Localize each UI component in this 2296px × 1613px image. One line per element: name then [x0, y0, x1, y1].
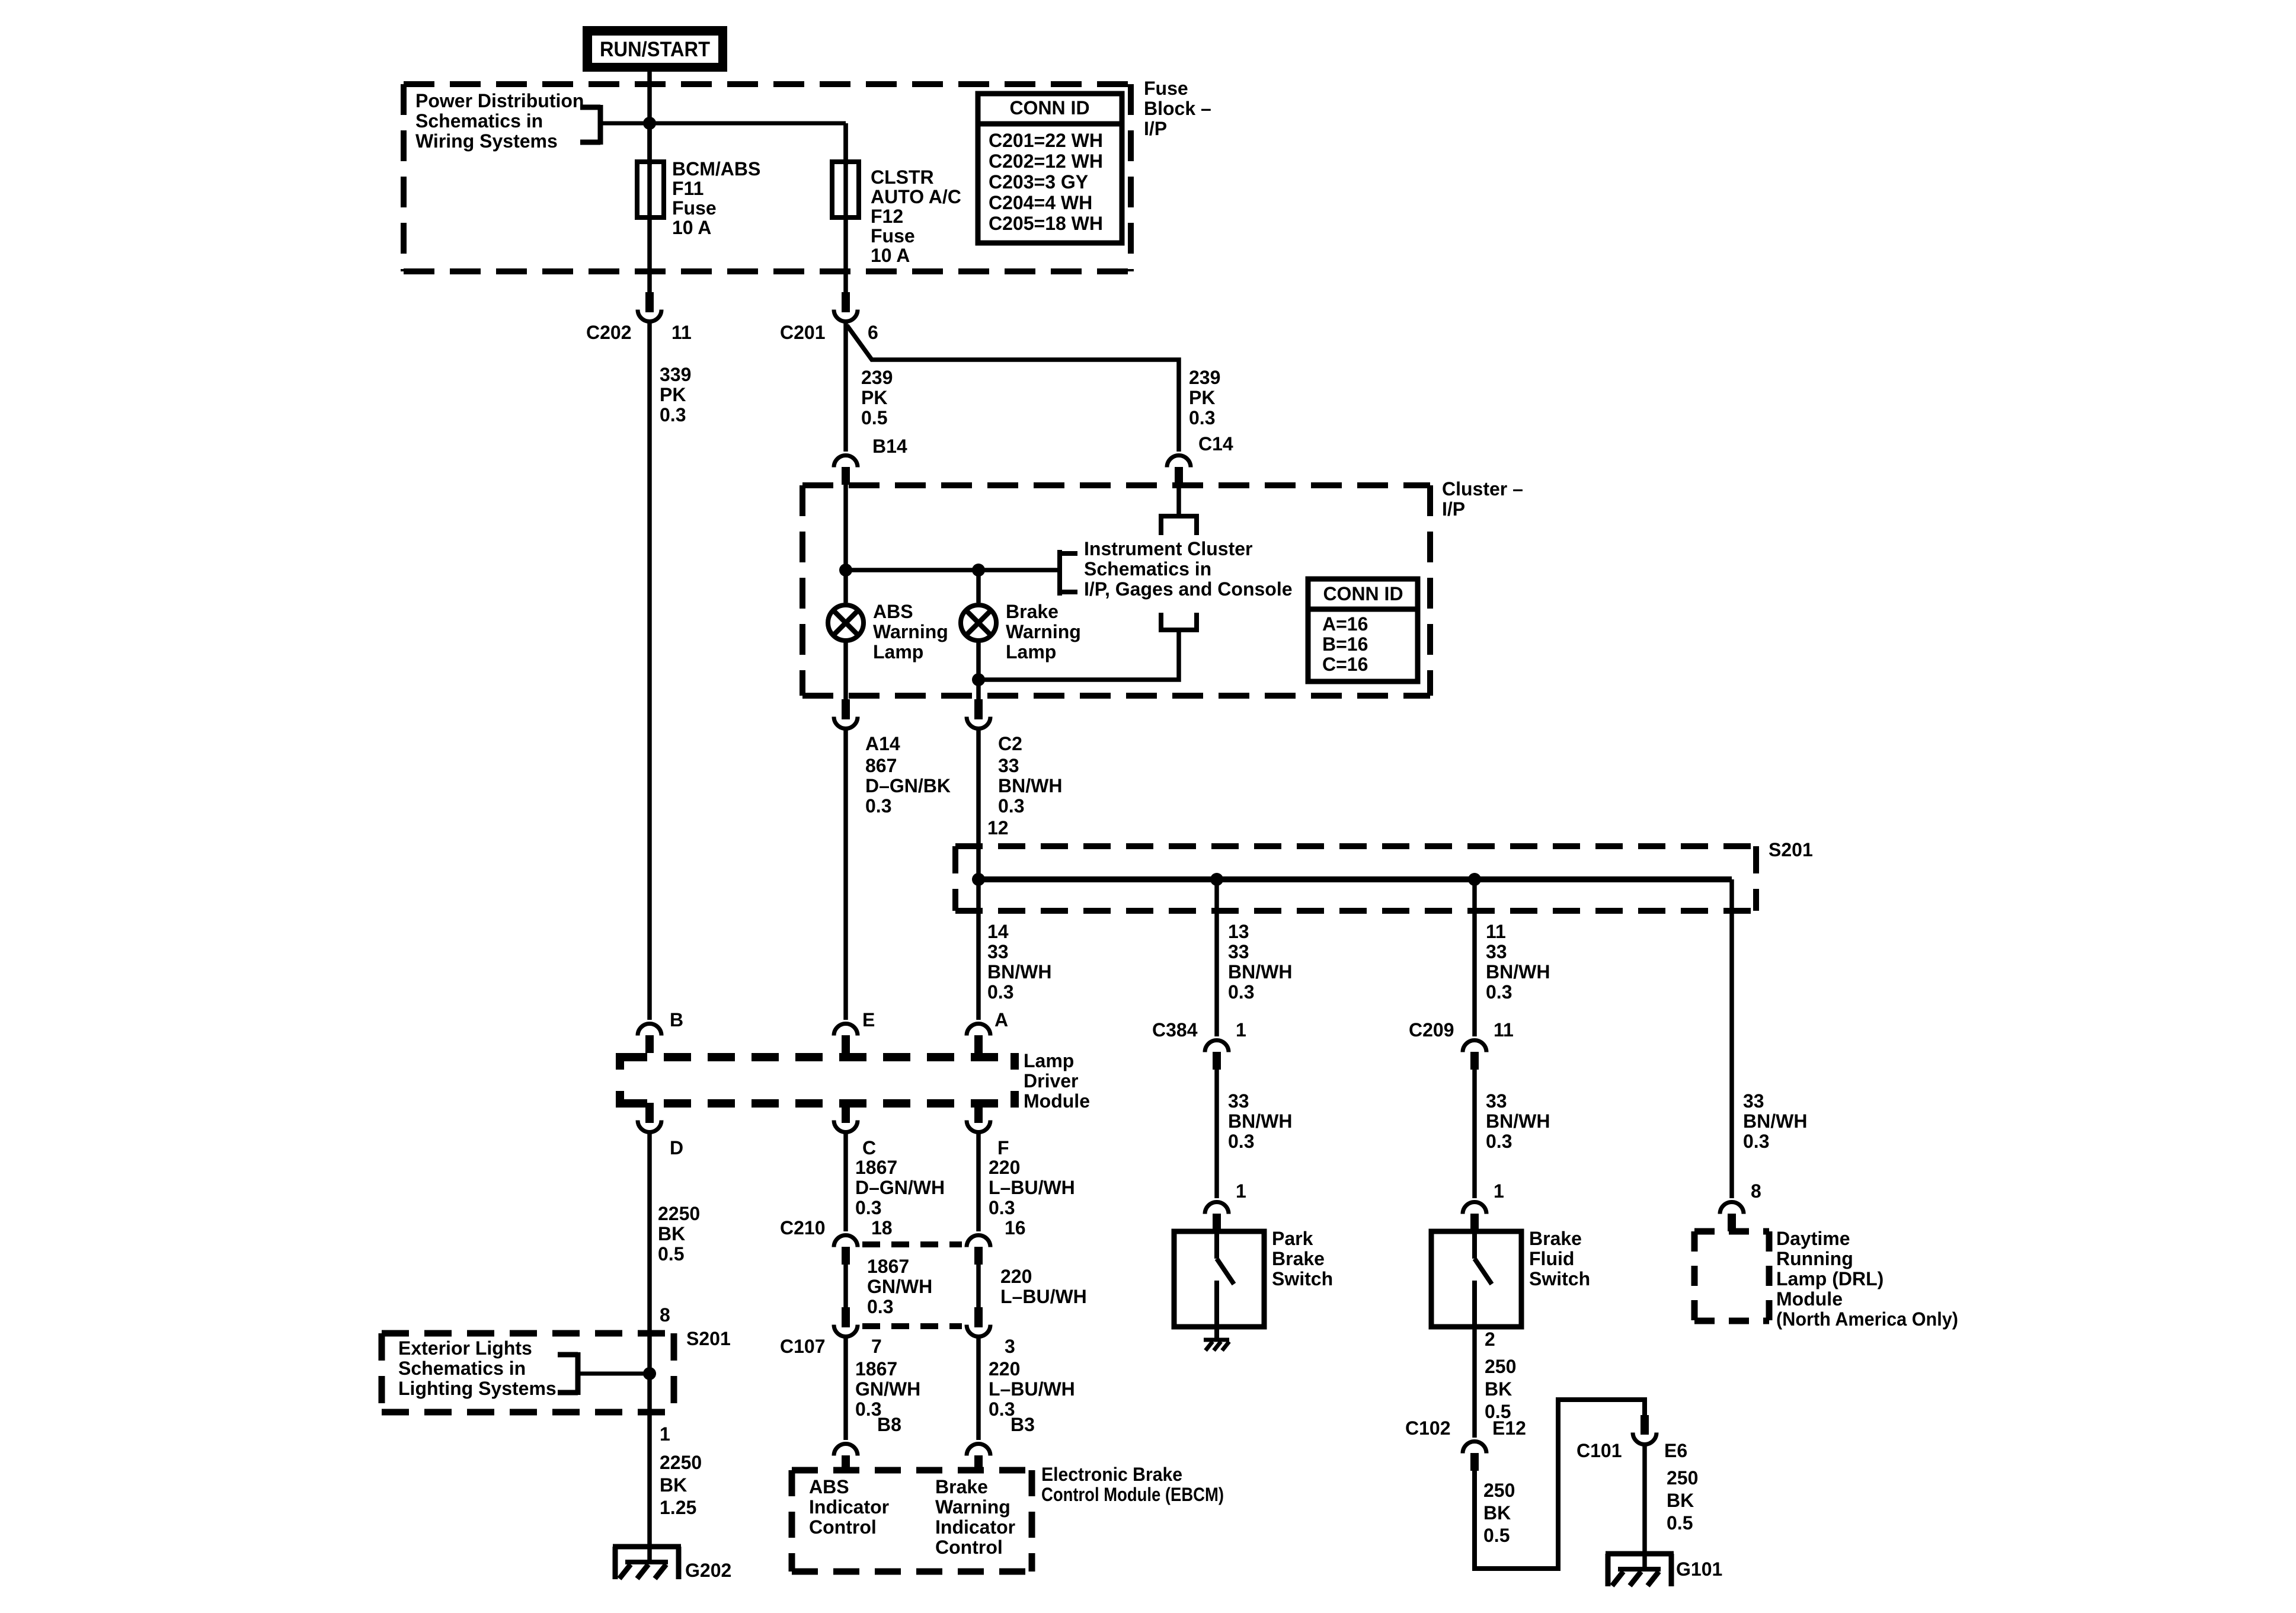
bracket: instrument cluster note: [1060, 550, 1077, 596]
svg-text:C102: C102: [1405, 1417, 1451, 1439]
svg-text:C205=18 WH: C205=18 WH: [989, 213, 1103, 234]
ground G202: [613, 1547, 731, 1581]
svg-text:16: 16: [1005, 1217, 1026, 1238]
svg-text:8: 8: [1751, 1180, 1761, 1202]
svg-text:Daytime: Daytime: [1776, 1228, 1850, 1249]
wire: to brake warning lamp: [976, 570, 981, 603]
svg-text:BN/WH: BN/WH: [998, 775, 1062, 796]
svg-text:18: 18: [871, 1217, 893, 1238]
label: Electronic Brake Control Module (EBCM): [1041, 1464, 1224, 1505]
wire 1 2250 BK 1.25 (S201 to G202): [650, 1374, 702, 1562]
svg-text:33: 33: [1486, 1090, 1507, 1112]
connector row C210 dashes: [862, 1241, 962, 1247]
svg-text:Fluid: Fluid: [1529, 1248, 1574, 1269]
svg-text:0.3: 0.3: [1228, 1131, 1254, 1152]
bracket: power distribution note: [580, 105, 650, 145]
svg-text:1867: 1867: [855, 1157, 897, 1178]
svg-text:BN/WH: BN/WH: [1743, 1110, 1807, 1132]
svg-text:339: 339: [660, 364, 691, 385]
svg-text:0.3: 0.3: [998, 795, 1024, 817]
svg-text:220: 220: [989, 1157, 1020, 1178]
svg-text:Control Module (EBCM): Control Module (EBCM): [1041, 1484, 1224, 1505]
svg-text:Fuse: Fuse: [871, 225, 915, 247]
svg-text:A: A: [994, 1009, 1008, 1030]
wire: cluster logic return to brake lamp: [978, 630, 1179, 680]
terminal bracket (C14 feed into cluster logic): [1159, 516, 1199, 535]
wire 11 33 BN/WH 0.3 (S201 to C209): [1475, 879, 1550, 1036]
svg-text:Fuse: Fuse: [1144, 78, 1188, 99]
svg-text:A14: A14: [865, 733, 900, 754]
svg-text:11: 11: [671, 322, 692, 343]
svg-text:PK: PK: [861, 387, 887, 408]
svg-text:B14: B14: [872, 436, 907, 457]
svg-text:1: 1: [1236, 1180, 1246, 1202]
svg-text:C2: C2: [998, 733, 1022, 754]
table: CONN ID (fuse block): [978, 94, 1122, 243]
wire: ABS lamp to A14: [843, 641, 848, 699]
svg-text:Indicator: Indicator: [809, 1496, 889, 1518]
svg-text:Brake: Brake: [1529, 1228, 1582, 1249]
svg-text:11: 11: [1486, 921, 1506, 942]
svg-text:Brake: Brake: [1006, 601, 1059, 622]
svg-text:CONN ID: CONN ID: [1009, 97, 1089, 119]
svg-text:Warning: Warning: [873, 621, 948, 642]
connector LDM pin F: [967, 1103, 1009, 1158]
svg-text:BN/WH: BN/WH: [1228, 961, 1292, 982]
svg-text:1.25: 1.25: [660, 1497, 696, 1518]
svg-text:0.5: 0.5: [658, 1243, 684, 1265]
svg-text:C384: C384: [1152, 1019, 1198, 1041]
connector DRL module pin 8: [1720, 1180, 1761, 1231]
wire 33 BN/WH 0.3 pin 12 (C2 to splice S201): [978, 730, 1062, 1020]
wire 339 PK 0.3 (C202-11 to LDM B): [650, 323, 691, 1020]
svg-text:Warning: Warning: [1006, 621, 1081, 642]
svg-text:Lamp: Lamp: [873, 641, 923, 663]
svg-text:Wiring Systems: Wiring Systems: [415, 130, 558, 152]
wire 2 250 BK 0.5 (switch to C102): [1475, 1327, 1516, 1438]
node: S201 tap 13: [1210, 873, 1223, 886]
node: S201 splice on ground wire: [643, 1367, 656, 1380]
wire 7 1867 GN/WH 0.3 B8 (C107 to EBCM B8): [846, 1338, 920, 1440]
svg-text:867: 867: [865, 755, 897, 776]
svg-text:BN/WH: BN/WH: [1228, 1110, 1292, 1132]
connector A14: [834, 699, 900, 754]
node: S201 tap 11: [1468, 873, 1481, 886]
svg-text:0.5: 0.5: [1667, 1512, 1693, 1534]
connector LDM pin D: [638, 1103, 683, 1158]
connector C107 (right) pin 3: [967, 1307, 1015, 1357]
connector C101 cavity E6: [1576, 1415, 1687, 1461]
module: Lamp Driver Module dashed box: [620, 1053, 1015, 1108]
wire 33 BN/WH 0.3 (C384 to park brake switch): [1217, 1070, 1292, 1198]
wire: cluster lamp feed bus: [846, 568, 1060, 572]
svg-text:BK: BK: [1667, 1490, 1694, 1511]
svg-text:1: 1: [1236, 1019, 1246, 1041]
svg-text:C201: C201: [780, 322, 826, 343]
svg-text:220: 220: [1000, 1266, 1032, 1287]
svg-text:14: 14: [987, 921, 1009, 942]
svg-text:B3: B3: [1011, 1414, 1035, 1435]
svg-text:Warning: Warning: [935, 1496, 1011, 1518]
svg-text:Exterior Lights: Exterior Lights: [398, 1337, 532, 1359]
connector C202 pin 11: [586, 292, 692, 343]
wire 239 PK 0.5 (C201-6 to cluster B14): [846, 323, 907, 457]
connector EBCM pin B3: [967, 1444, 990, 1474]
fuse F12 CLSTR AUTO A/C 10 A: [832, 123, 961, 292]
svg-text:Running: Running: [1776, 1248, 1853, 1269]
svg-text:B=16: B=16: [1322, 633, 1368, 655]
connector C209 pin 11: [1409, 1019, 1514, 1070]
svg-text:0.3: 0.3: [1189, 407, 1215, 428]
svg-text:0.3: 0.3: [1743, 1131, 1769, 1152]
svg-text:Cluster –: Cluster –: [1442, 478, 1523, 500]
wire: splice to F12 branch: [647, 121, 846, 126]
wire: B14 into cluster to ABS lamp: [843, 485, 848, 603]
svg-text:Lamp (DRL): Lamp (DRL): [1776, 1268, 1884, 1289]
svg-text:0.3: 0.3: [1486, 1131, 1512, 1152]
svg-text:10 A: 10 A: [871, 245, 910, 266]
svg-text:PK: PK: [1189, 387, 1215, 408]
svg-text:11: 11: [1494, 1019, 1514, 1041]
svg-text:0.3: 0.3: [660, 404, 686, 425]
connector LDM pin E: [834, 1009, 875, 1053]
svg-text:8: 8: [660, 1304, 670, 1326]
wire 239 PK 0.3 (C201-6 to cluster C14): [847, 325, 1233, 455]
svg-text:2250: 2250: [658, 1203, 700, 1224]
svg-text:Fuse: Fuse: [672, 197, 717, 219]
lamp: ABS Warning Lamp: [828, 601, 948, 663]
wire 2250 BK 0.5 (LDM D to S201 splice): [650, 1134, 700, 1374]
connector EBCM pin B8: [834, 1444, 858, 1474]
svg-text:0.3: 0.3: [1228, 981, 1254, 1003]
svg-text:Driver: Driver: [1024, 1070, 1079, 1092]
connector LDM pin C: [834, 1103, 876, 1158]
svg-text:GN/WH: GN/WH: [867, 1276, 932, 1297]
svg-text:I/P, Gages and Console: I/P, Gages and Console: [1084, 578, 1293, 600]
label: Cluster - I/P: [1442, 478, 1523, 520]
svg-text:33: 33: [1486, 941, 1507, 962]
svg-text:Module: Module: [1776, 1288, 1843, 1310]
svg-text:L–BU/WH: L–BU/WH: [989, 1378, 1075, 1400]
svg-text:Lighting Systems: Lighting Systems: [398, 1378, 557, 1399]
wire 867 D-GN/BK 0.3 (A14 to LDM E): [846, 730, 951, 1020]
svg-text:33: 33: [1228, 941, 1249, 962]
connector B14: [834, 456, 858, 485]
svg-text:RUN/START: RUN/START: [600, 38, 710, 61]
svg-text:Control: Control: [935, 1537, 1003, 1558]
label: Lamp Driver Module: [1024, 1050, 1090, 1112]
svg-text:C: C: [862, 1137, 876, 1158]
svg-text:PK: PK: [660, 384, 686, 405]
svg-text:C107: C107: [780, 1336, 826, 1357]
connector LDM pin A: [967, 1024, 990, 1054]
note: Power Distribution Schematics in Wiring Systems: [415, 90, 584, 152]
svg-text:0.5: 0.5: [861, 407, 887, 428]
svg-text:C202: C202: [586, 322, 632, 343]
svg-text:CONN ID: CONN ID: [1323, 583, 1403, 604]
svg-text:7: 7: [871, 1336, 882, 1357]
svg-text:Control: Control: [809, 1516, 877, 1538]
svg-text:13: 13: [1228, 921, 1249, 942]
table: CONN ID (cluster): [1308, 579, 1418, 681]
svg-text:AUTO A/C: AUTO A/C: [871, 186, 961, 207]
svg-text:0.3: 0.3: [987, 981, 1013, 1003]
svg-text:250: 250: [1483, 1480, 1515, 1501]
connector C14: [1167, 456, 1191, 485]
power feed RUN/START: [583, 26, 727, 72]
splice bus wire S201: [978, 876, 1732, 882]
svg-text:E: E: [862, 1009, 875, 1030]
switch: Brake Fluid Switch: [1431, 1228, 1590, 1327]
cluster I/P dashed box: [802, 485, 1430, 696]
node: cluster splice at Brake lamp: [972, 564, 985, 577]
svg-text:Schematics in: Schematics in: [1084, 558, 1211, 580]
svg-text:D: D: [670, 1137, 683, 1158]
svg-text:BK: BK: [660, 1474, 687, 1496]
fuse F11 BCM/ABS 10 A: [637, 123, 760, 292]
svg-text:250: 250: [1667, 1467, 1698, 1489]
svg-text:0.5: 0.5: [1483, 1525, 1510, 1546]
connector row C107 dashes: [862, 1323, 962, 1329]
svg-text:E6: E6: [1664, 1440, 1687, 1461]
label: Fuse Block - I/P: [1144, 78, 1211, 139]
bracket: exterior lights note: [558, 1352, 650, 1395]
module: Daytime Running Lamp (DRL) Module dashed box: [1694, 1231, 1769, 1321]
wire F 220 L-BU/WH 0.3 pin 16 (LDM F to C210): [978, 1134, 1075, 1238]
terminal bracket (cluster logic to lamp return): [1159, 613, 1199, 632]
wire 33 BN/WH 0.3 (S201 to DRL module): [1732, 879, 1807, 1198]
svg-text:C209: C209: [1409, 1019, 1454, 1041]
svg-text:GN/WH: GN/WH: [855, 1378, 920, 1400]
svg-text:S201: S201: [686, 1328, 731, 1349]
svg-text:L–BU/WH: L–BU/WH: [989, 1177, 1075, 1198]
svg-text:33: 33: [998, 755, 1019, 776]
svg-text:BK: BK: [658, 1223, 685, 1244]
svg-text:220: 220: [989, 1358, 1020, 1380]
svg-text:D–GN/WH: D–GN/WH: [855, 1177, 945, 1198]
svg-text:A=16: A=16: [1322, 613, 1368, 635]
node: brake lamp return splice: [972, 673, 985, 686]
svg-text:Instrument Cluster: Instrument Cluster: [1084, 538, 1252, 559]
svg-text:1867: 1867: [867, 1256, 909, 1277]
wire 250 BK 0.5 (C102 to C101): [1475, 1400, 1645, 1569]
svg-text:Schematics in: Schematics in: [398, 1358, 526, 1379]
svg-text:BCM/ABS: BCM/ABS: [672, 158, 760, 180]
fuse block I/P dashed box: [404, 84, 1131, 271]
connector LDM pin B: [638, 1009, 683, 1053]
ground (park brake switch case): [1204, 1340, 1229, 1350]
svg-text:250: 250: [1485, 1356, 1516, 1377]
svg-text:B8: B8: [877, 1414, 901, 1435]
label: ABS Indicator Control: [809, 1476, 889, 1538]
svg-text:I/P: I/P: [1144, 118, 1167, 139]
svg-text:C=16: C=16: [1322, 654, 1368, 675]
svg-text:Switch: Switch: [1272, 1268, 1333, 1289]
svg-text:2250: 2250: [660, 1452, 702, 1473]
splice pack S201 dashed box: [955, 846, 1756, 911]
ground G101: [1606, 1554, 1722, 1586]
svg-text:B: B: [670, 1009, 683, 1030]
svg-text:C203=3 GY: C203=3 GY: [989, 171, 1088, 193]
label: Daytime Running Lamp (DRL) Module (North America Only): [1776, 1228, 1958, 1330]
connector C102 cavity E12: [1405, 1417, 1526, 1471]
connector C384 pin 1: [1152, 1019, 1246, 1070]
note: Instrument Cluster Schematics in I/P, Gages and Console: [1084, 538, 1293, 600]
svg-text:Indicator: Indicator: [935, 1516, 1015, 1538]
wire 220 L-BU/WH (C210 to C107): [978, 1265, 1087, 1307]
svg-text:C101: C101: [1576, 1440, 1622, 1461]
connector C201 pin 6: [780, 292, 878, 343]
svg-text:Lamp: Lamp: [1006, 641, 1056, 663]
label: Brake Warning Indicator Control: [935, 1476, 1015, 1558]
svg-text:12: 12: [987, 817, 1009, 838]
svg-text:D–GN/BK: D–GN/BK: [865, 775, 951, 796]
svg-text:0.3: 0.3: [1486, 981, 1512, 1003]
connector C107 (left) pin 7: [780, 1307, 882, 1357]
svg-text:33: 33: [987, 941, 1009, 962]
svg-text:C202=12 WH: C202=12 WH: [989, 151, 1103, 172]
connector C210 (left): [834, 1236, 858, 1265]
svg-text:1: 1: [660, 1423, 670, 1445]
svg-text:0.3: 0.3: [855, 1197, 881, 1218]
connector park brake switch pin 1: [1205, 1180, 1246, 1231]
node: cluster splice at ABS lamp: [839, 564, 852, 577]
svg-text:Brake: Brake: [935, 1476, 988, 1497]
wire 13 33 BN/WH 0.3 (S201 to C384): [1217, 879, 1292, 1036]
svg-text:Park: Park: [1272, 1228, 1313, 1249]
svg-text:Brake: Brake: [1272, 1248, 1325, 1269]
wire 33 BN/WH 0.3 (C209 to brake fluid switch): [1475, 1070, 1550, 1198]
switch: Park Brake Switch: [1174, 1228, 1333, 1340]
svg-text:Schematics in: Schematics in: [415, 110, 543, 132]
svg-text:ABS: ABS: [809, 1476, 849, 1497]
connector C2: [967, 699, 1022, 754]
wire 14 33 BN/WH 0.3 (S201 to LDM A): [987, 921, 1051, 1030]
svg-text:S201: S201: [1769, 839, 1813, 860]
svg-text:239: 239: [1189, 367, 1220, 388]
svg-text:Block –: Block –: [1144, 98, 1211, 119]
svg-text:33: 33: [1743, 1090, 1764, 1112]
connector C210 (right): [967, 1236, 990, 1265]
svg-text:0.3: 0.3: [867, 1296, 893, 1317]
svg-text:BN/WH: BN/WH: [987, 961, 1051, 982]
svg-text:BN/WH: BN/WH: [1486, 1110, 1550, 1132]
svg-text:G202: G202: [685, 1560, 731, 1581]
note: Exterior Lights Schematics in Lighting Systems: [382, 1333, 674, 1412]
svg-text:E12: E12: [1492, 1417, 1526, 1439]
svg-text:F12: F12: [871, 206, 903, 227]
svg-text:(North America Only): (North America Only): [1776, 1308, 1958, 1330]
lamp: Brake Warning Lamp: [961, 601, 1081, 663]
svg-text:G101: G101: [1676, 1558, 1722, 1580]
svg-text:6: 6: [868, 322, 878, 343]
node: feed splice: [643, 117, 656, 130]
node: S201 tap 14: [972, 873, 985, 886]
svg-text:1867: 1867: [855, 1358, 897, 1380]
wire: Brake lamp to C2: [976, 641, 981, 699]
svg-text:Lamp: Lamp: [1024, 1050, 1074, 1071]
connector brake fluid switch pin 1: [1463, 1180, 1504, 1231]
svg-text:2: 2: [1485, 1329, 1495, 1350]
wire 3 220 L-BU/WH 0.3 B3 (C107 to EBCM B3): [978, 1338, 1075, 1440]
svg-text:10 A: 10 A: [672, 217, 711, 238]
svg-text:C204=4 WH: C204=4 WH: [989, 192, 1092, 213]
svg-text:CLSTR: CLSTR: [871, 167, 934, 188]
svg-text:239: 239: [861, 367, 893, 388]
svg-text:C14: C14: [1198, 433, 1233, 455]
svg-text:C201=22 WH: C201=22 WH: [989, 130, 1103, 151]
svg-text:1: 1: [1494, 1180, 1504, 1202]
svg-text:BN/WH: BN/WH: [1486, 961, 1550, 982]
svg-text:3: 3: [1005, 1336, 1015, 1357]
svg-text:BK: BK: [1483, 1502, 1511, 1524]
wire 1867 GN/WH 0.3 (C210 to C107): [846, 1256, 932, 1317]
svg-text:Electronic Brake: Electronic Brake: [1041, 1464, 1182, 1485]
module: Electronic Brake Control Module (EBCM) dashed box: [792, 1470, 1032, 1572]
svg-text:0.3: 0.3: [989, 1197, 1015, 1218]
svg-text:0.3: 0.3: [865, 795, 891, 817]
svg-text:BK: BK: [1485, 1378, 1512, 1400]
svg-text:Power Distribution: Power Distribution: [415, 90, 584, 111]
wire: RUN/START down to splice: [647, 72, 652, 123]
svg-text:Switch: Switch: [1529, 1268, 1590, 1289]
svg-text:33: 33: [1228, 1090, 1249, 1112]
wire 250 BK 0.5 (C101 to G101): [1645, 1445, 1698, 1568]
svg-text:ABS: ABS: [873, 601, 913, 622]
svg-text:I/P: I/P: [1442, 498, 1465, 520]
svg-text:F: F: [997, 1137, 1009, 1158]
svg-text:F11: F11: [672, 178, 703, 199]
wire C 1867 D-GN/WH 0.3 pin 18 (LDM C to C210): [780, 1134, 945, 1238]
svg-text:Module: Module: [1024, 1090, 1090, 1112]
wire: splice to F11: [647, 123, 652, 165]
svg-text:L–BU/WH: L–BU/WH: [1000, 1286, 1087, 1307]
svg-text:C210: C210: [780, 1217, 826, 1238]
wire: C14 into cluster: [1176, 485, 1181, 516]
